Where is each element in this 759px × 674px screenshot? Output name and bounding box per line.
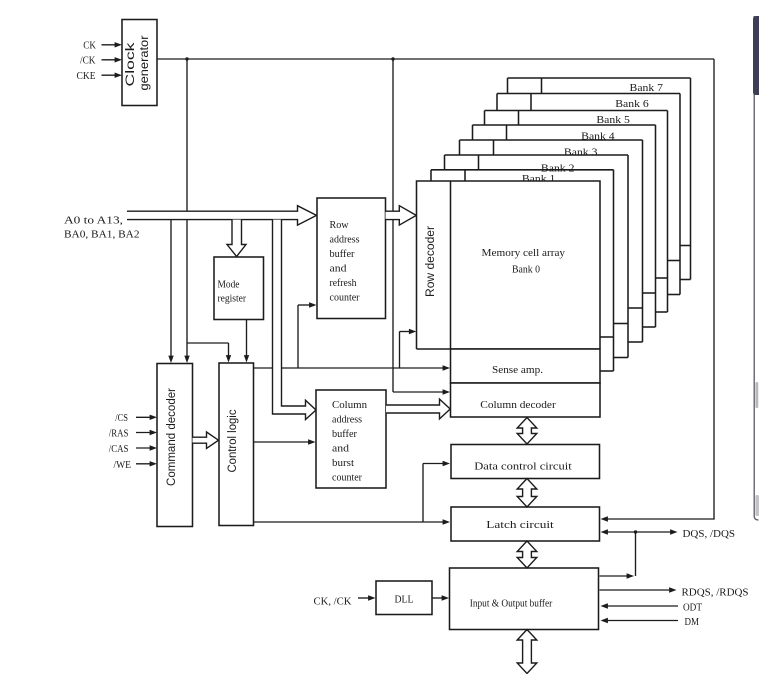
- wire RDQS output: [600, 589, 670, 591]
- svg-text:address: address: [332, 414, 362, 426]
- bus A0-A13 main hollow arrow into row address buffer: [127, 206, 317, 225]
- svg-text:/CAS: /CAS: [109, 443, 129, 455]
- bank 3 box (behind): [460, 140, 643, 342]
- svg-text:Bank 6: Bank 6: [615, 98, 649, 110]
- svg-text:CK: CK: [83, 40, 96, 52]
- scrollbar thumb dark navy: [753, 16, 759, 95]
- wire refresh branch up into row address buffer: [297, 305, 299, 368]
- wire CKE into clock generator: [102, 74, 119, 76]
- svg-text:refresh: refresh: [330, 277, 357, 289]
- svg-text:A0 to A13,: A0 to A13,: [64, 214, 123, 226]
- wire branch up into data control circuit: [422, 464, 424, 523]
- block mode register: [214, 257, 264, 320]
- svg-text:/RAS: /RAS: [109, 428, 129, 440]
- wire address tap down to command decoder top: [170, 220, 172, 359]
- block latch circuit: [451, 507, 600, 541]
- wire /CS into command decoder: [136, 416, 153, 418]
- svg-text:generator: generator: [139, 35, 151, 90]
- node junction clock/command-decoder branch: [185, 57, 188, 60]
- wire junction down toward IO buffer: [635, 532, 637, 576]
- svg-text:Bank 5: Bank 5: [596, 114, 630, 126]
- node junction DQS to IO buffer: [634, 530, 637, 533]
- svg-text:Data control circuit: Data control circuit: [474, 460, 572, 472]
- wire clock branch down to command decoder (crosses address bus): [186, 59, 188, 211]
- bank 1 box (behind): [431, 170, 614, 371]
- svg-text:Latch circuit: Latch circuit: [486, 519, 554, 531]
- wire control logic to column address buffer: [254, 441, 312, 443]
- svg-text:BA0, BA1, BA2: BA0, BA1, BA2: [64, 229, 140, 241]
- svg-text:CKE: CKE: [77, 70, 96, 82]
- bank 7 box (behind): [508, 78, 691, 280]
- block column address buffer and burst counter: [316, 390, 386, 488]
- svg-text:DLL: DLL: [395, 593, 414, 605]
- svg-text:and: and: [332, 443, 350, 455]
- svg-text:counter: counter: [332, 472, 362, 484]
- svg-text:and: and: [330, 263, 348, 275]
- bank 4 box (behind): [473, 125, 656, 327]
- wire into latch circuit right edge: [605, 518, 715, 520]
- svg-text:Bank 3: Bank 3: [564, 147, 598, 159]
- svg-text:Bank 7: Bank 7: [630, 82, 664, 94]
- block input and output buffer: [450, 568, 599, 630]
- block row address buffer and refresh counter: [317, 198, 386, 319]
- scrollbar small gray piece lower: [755, 495, 759, 516]
- hollow arrow command decoder to control logic: [193, 432, 219, 448]
- svg-text:buffer: buffer: [332, 428, 357, 440]
- svg-text:counter: counter: [330, 292, 360, 304]
- hollow arrow row address buffer to row decoder: [386, 206, 417, 225]
- svg-text:RDQS, /RDQS: RDQS, /RDQS: [682, 586, 749, 598]
- svg-text:Bank 4: Bank 4: [581, 130, 615, 142]
- block control logic: [219, 363, 254, 526]
- svg-text:CK, /CK: CK, /CK: [314, 595, 352, 607]
- wire row decoder branch up into row decoder: [399, 332, 401, 369]
- svg-text:burst: burst: [332, 457, 354, 469]
- svg-text:/CK: /CK: [80, 55, 96, 67]
- wire tee from clock branch to control logic top: [187, 342, 229, 344]
- svg-text:/WE: /WE: [114, 459, 132, 471]
- svg-text:Column decoder: Column decoder: [480, 399, 556, 411]
- block DLL: [376, 581, 432, 615]
- wire DLL to input output buffer: [432, 597, 445, 599]
- wire DM input: [601, 618, 608, 623]
- svg-text:Sense amp.: Sense amp.: [492, 364, 543, 376]
- scrollbar small gray thumb middle: [755, 382, 758, 408]
- browser scrollbar track edge at right: [754, 16, 758, 520]
- svg-text:Memory cell array: Memory cell array: [482, 247, 566, 259]
- wire IO buffer up to DQS line: [600, 575, 628, 577]
- wire into column decoder left edge: [393, 391, 446, 393]
- svg-text:buffer: buffer: [330, 248, 355, 260]
- block clock generator U1: [122, 20, 157, 106]
- svg-text:address: address: [330, 233, 360, 245]
- bank 2 box (behind): [445, 155, 629, 358]
- wire control logic to sense amp: [254, 367, 273, 369]
- bus branch hollow arrow down into mode register: [227, 220, 246, 257]
- wire /CAS into command decoder: [136, 447, 153, 449]
- svg-text:DM: DM: [685, 616, 700, 628]
- double arrow input output buffer to DQ pads: [517, 630, 537, 674]
- block sense amp: [451, 349, 601, 383]
- svg-text:Bank 2: Bank 2: [541, 162, 575, 174]
- svg-text:Command decoder: Command decoder: [166, 388, 178, 486]
- svg-text:Mode: Mode: [218, 279, 240, 291]
- svg-text:DQS, /DQS: DQS, /DQS: [683, 528, 736, 540]
- svg-text:Input & Output buffer: Input & Output buffer: [470, 597, 553, 609]
- wire clock vertical right side down to latch circuit: [713, 59, 715, 519]
- wire clock branch down to column decoder: [392, 59, 394, 392]
- wire /WE into command decoder: [136, 463, 153, 465]
- wire CK into clock generator: [102, 44, 119, 46]
- wire /RAS into command decoder: [136, 432, 153, 434]
- double arrow column decoder to data control circuit: [517, 418, 537, 445]
- row decoder divider line bank 0: [450, 181, 452, 349]
- bank 6 box (behind): [497, 94, 680, 295]
- svg-text:Control logic: Control logic: [227, 409, 239, 472]
- wire clock generator output to right edge: [157, 58, 714, 60]
- svg-text:Row decoder: Row decoder: [425, 226, 437, 297]
- svg-text:Clock: Clock: [125, 42, 137, 86]
- svg-text:Row: Row: [330, 219, 349, 231]
- hollow arrow column address buffer to column decoder: [386, 399, 450, 419]
- bank 0 outer box (memory cell array + row decoder): [417, 181, 601, 349]
- wire mode register output down to control logic: [246, 320, 248, 359]
- block data control circuit: [451, 445, 600, 479]
- svg-text:ODT: ODT: [683, 602, 702, 614]
- svg-text:/CS: /CS: [115, 412, 128, 424]
- wire CK,/CK into DLL: [358, 597, 372, 599]
- svg-text:Bank 0: Bank 0: [512, 263, 540, 275]
- svg-text:Column: Column: [332, 399, 367, 411]
- block command decoder: [157, 364, 193, 527]
- svg-text:register: register: [218, 293, 247, 305]
- bus branch hollow arrow down and right into column address buffer: [273, 220, 317, 420]
- bank 5 box (behind): [485, 111, 668, 313]
- double arrow latch circuit to input output buffer: [517, 541, 537, 568]
- double arrow data control circuit to latch circuit: [517, 479, 537, 508]
- wire DQS bidirectional at latch circuit: [601, 529, 608, 534]
- block column decoder: [451, 383, 601, 417]
- wire control logic to latch circuit: [254, 521, 447, 523]
- wire ODT input: [601, 603, 608, 608]
- node junction clock/column-decoder branch: [391, 57, 394, 60]
- wire /CK into clock generator: [102, 59, 119, 61]
